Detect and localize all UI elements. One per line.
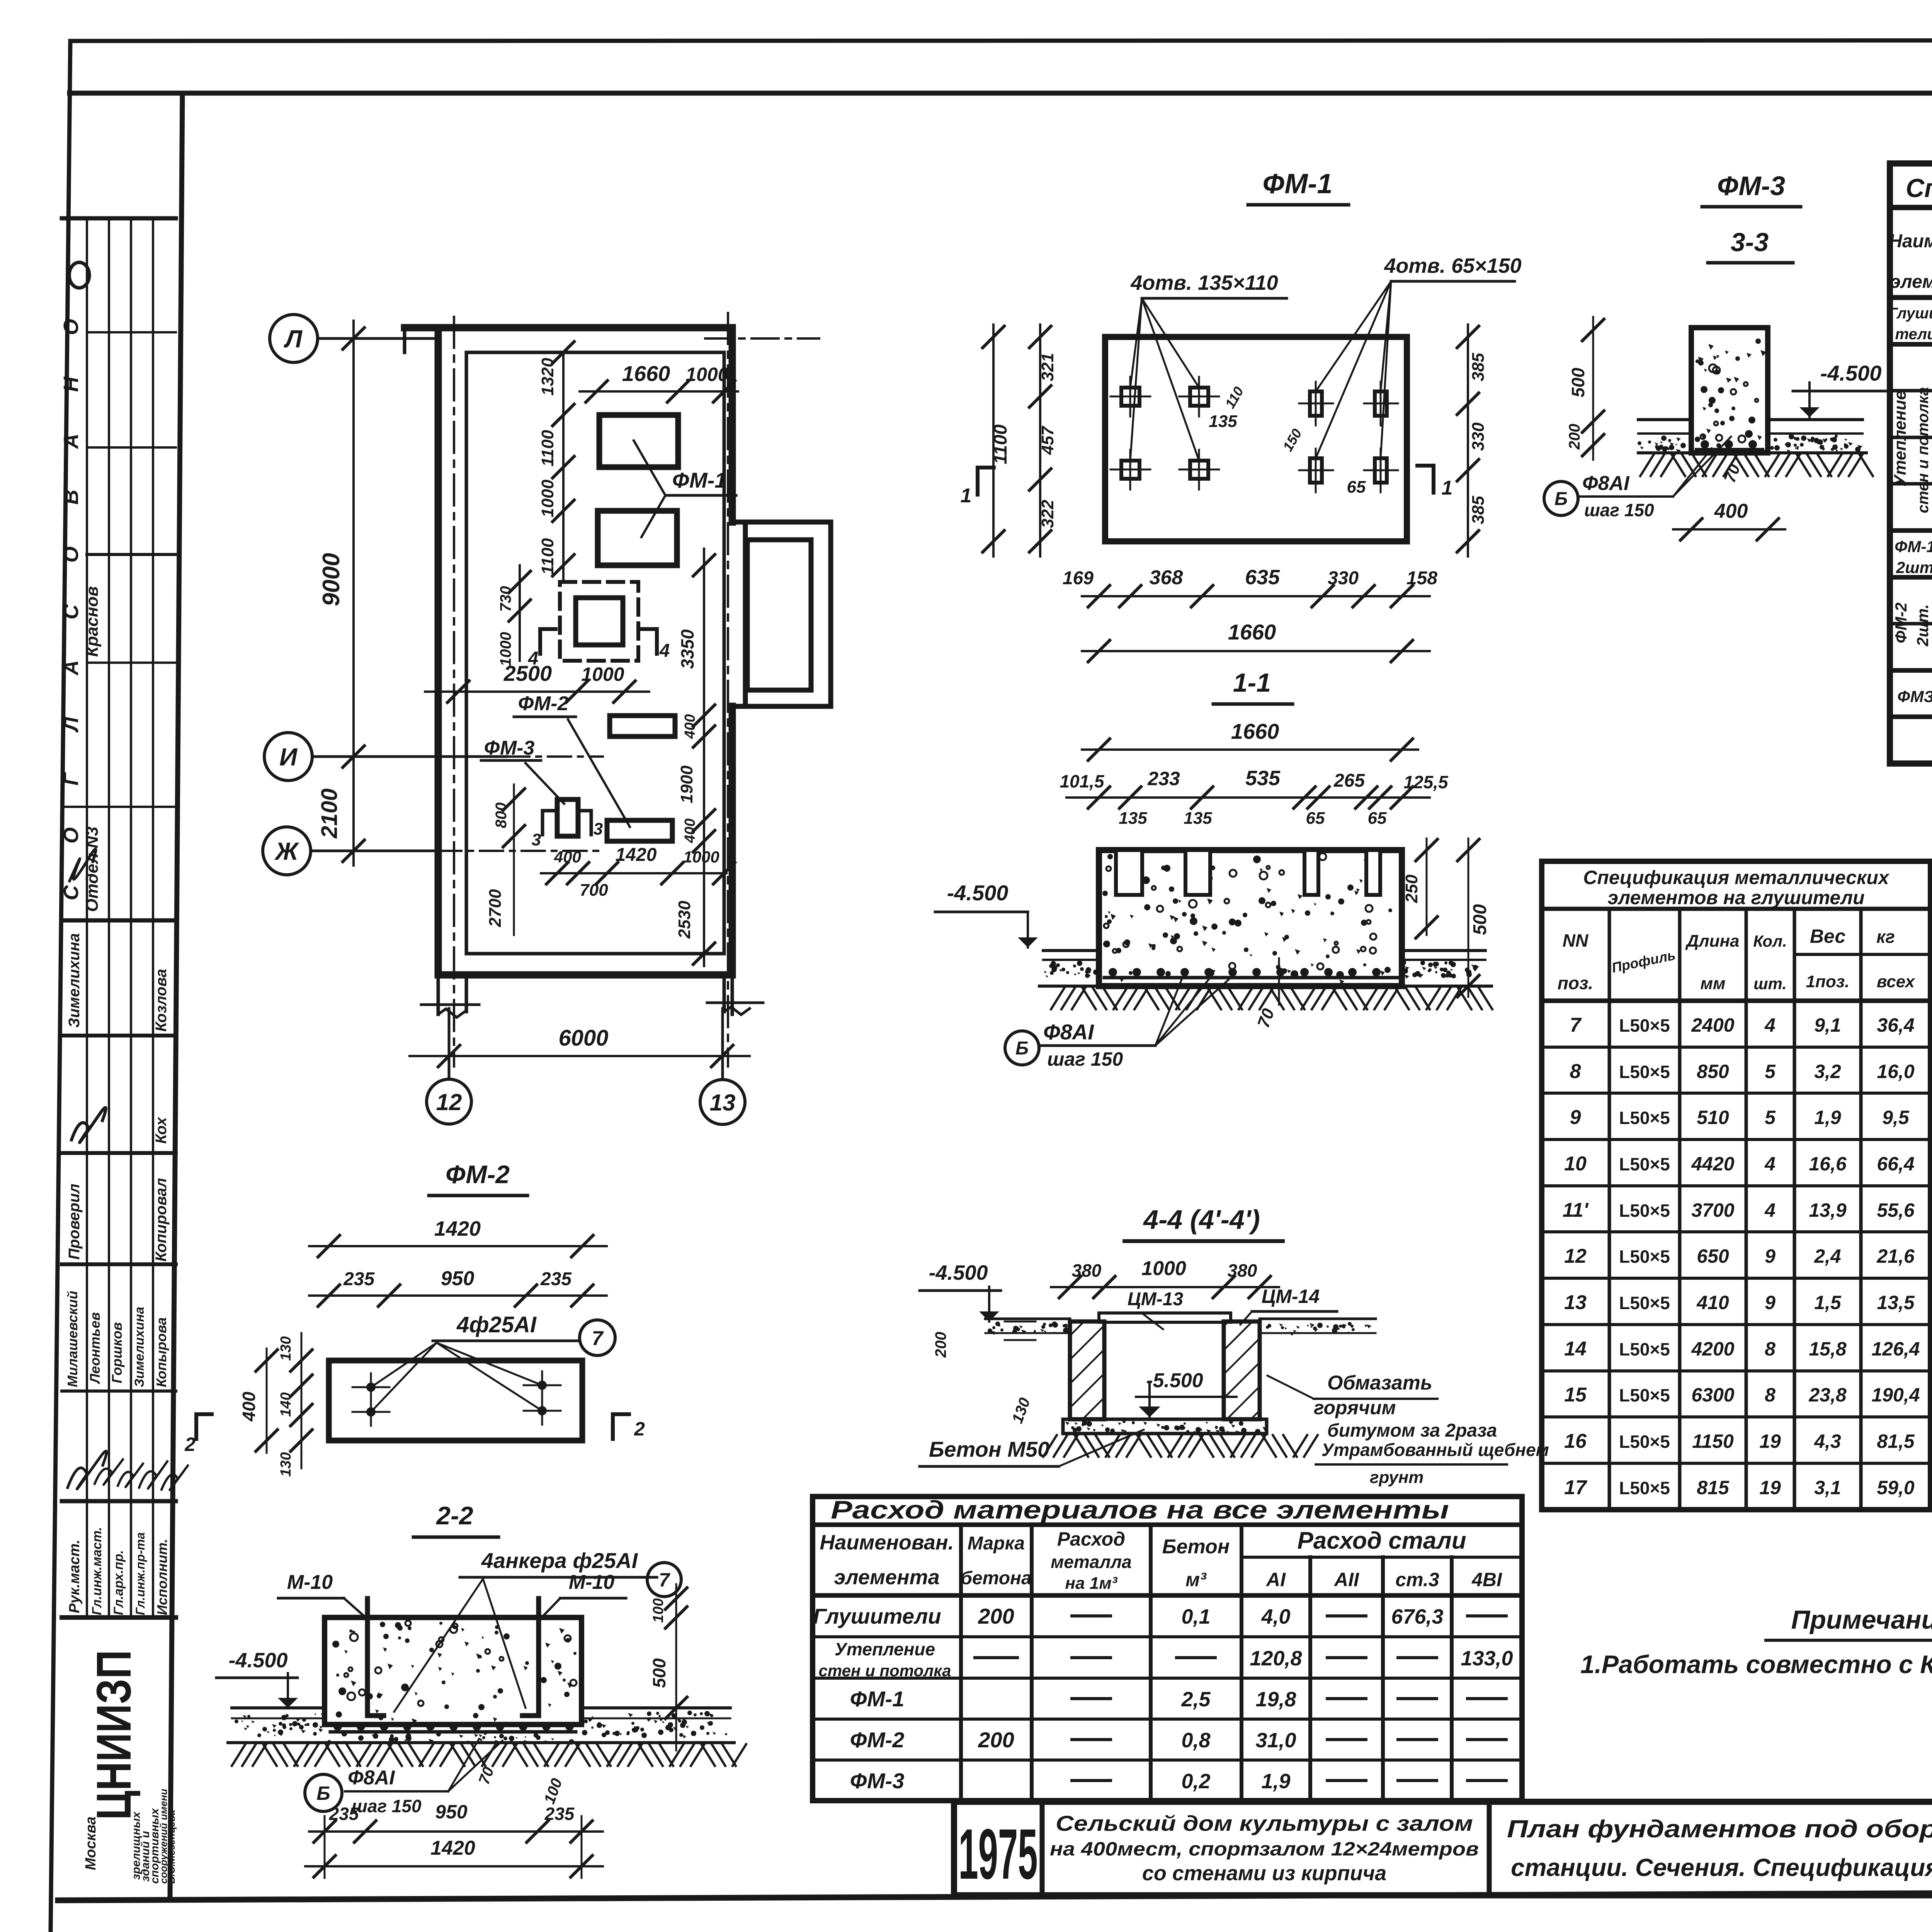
svg-text:8: 8 bbox=[1765, 1338, 1776, 1360]
svg-text:130: 130 bbox=[278, 1452, 294, 1476]
svg-text:Б: Б bbox=[1015, 1038, 1029, 1059]
dim chain 1320 1100 1000 1100 bbox=[562, 352, 565, 580]
svg-text:9000: 9000 bbox=[318, 553, 345, 606]
grid axis 12 bbox=[427, 1079, 471, 1124]
svg-text:510: 510 bbox=[1697, 1107, 1729, 1128]
svg-text:31,0: 31,0 bbox=[1255, 1729, 1296, 1752]
svg-text:3-3: 3-3 bbox=[1731, 228, 1769, 257]
svg-text:Краснов: Краснов bbox=[83, 586, 102, 657]
svg-text:стен и потолка: стен и потолка bbox=[819, 1662, 951, 1680]
dim 9000 / 2100 bbox=[352, 321, 355, 866]
svg-text:Леонтьев: Леонтьев bbox=[87, 1312, 103, 1384]
svg-text:368: 368 bbox=[1150, 566, 1183, 589]
svg-text:План фундаментов под оборудова: План фундаментов под оборудование насосн… bbox=[1507, 1815, 1932, 1843]
foundation plan bbox=[263, 313, 831, 1124]
svg-text:385: 385 bbox=[1469, 496, 1488, 524]
svg-text:ФМ-1: ФМ-1 bbox=[672, 468, 727, 492]
svg-text:125,5: 125,5 bbox=[1403, 772, 1449, 792]
svg-text:140: 140 bbox=[278, 1392, 294, 1417]
svg-text:233: 233 bbox=[1147, 768, 1180, 789]
svg-text:Глуши-: Глуши- bbox=[1888, 305, 1932, 322]
section marks 4 bbox=[538, 629, 542, 654]
punch hole bbox=[69, 262, 89, 288]
svg-text:стен и потолка: стен и потолка bbox=[1915, 387, 1932, 514]
svg-text:15: 15 bbox=[1564, 1384, 1587, 1406]
svg-text:ФМ-2: ФМ-2 bbox=[850, 1728, 905, 1752]
svg-text:3: 3 bbox=[594, 820, 603, 838]
svg-text:поз.: поз. bbox=[1558, 973, 1593, 993]
svg-text:Ф8АI: Ф8АI bbox=[348, 1767, 395, 1789]
svg-text:200: 200 bbox=[932, 1332, 949, 1358]
svg-text:1150: 1150 bbox=[1692, 1430, 1734, 1452]
svg-text:элементов на глушители: элементов на глушители bbox=[1608, 887, 1865, 908]
svg-text:9: 9 bbox=[1570, 1106, 1581, 1129]
svg-text:Утепление: Утепление bbox=[835, 1639, 935, 1659]
svg-text:ФМ-3: ФМ-3 bbox=[1717, 171, 1785, 201]
svg-text:бетона: бетона bbox=[961, 1568, 1031, 1588]
svg-text:ФМ-1: ФМ-1 bbox=[1895, 537, 1932, 556]
svg-text:Марка: Марка bbox=[968, 1533, 1025, 1554]
grid axis Ж bbox=[263, 827, 311, 875]
svg-text:11': 11' bbox=[1563, 1199, 1589, 1221]
left stamp column bbox=[60, 93, 188, 1897]
svg-text:410: 410 bbox=[1696, 1292, 1729, 1313]
svg-text:7: 7 bbox=[1570, 1014, 1582, 1036]
svg-text:2500: 2500 bbox=[503, 661, 552, 685]
svg-text:6000: 6000 bbox=[558, 1026, 608, 1051]
svg-text:200: 200 bbox=[978, 1604, 1014, 1628]
svg-text:шаг 150: шаг 150 bbox=[352, 1796, 422, 1816]
svg-text:Спецификация арматуры на 1элем: Спецификация арматуры на 1элемент bbox=[1906, 173, 1932, 203]
svg-text:Наименован.: Наименован. bbox=[820, 1531, 954, 1554]
svg-text:0,1: 0,1 bbox=[1181, 1605, 1210, 1628]
svg-text:7: 7 bbox=[592, 1327, 604, 1350]
svg-text:2: 2 bbox=[184, 1434, 196, 1455]
svg-text:133,0: 133,0 bbox=[1461, 1647, 1513, 1670]
svg-text:5: 5 bbox=[1765, 1107, 1776, 1128]
svg-text:9,5: 9,5 bbox=[1882, 1107, 1910, 1128]
svg-text:ЦМ-14: ЦМ-14 bbox=[1262, 1286, 1320, 1307]
svg-text:1420: 1420 bbox=[616, 845, 657, 865]
svg-text:мм: мм bbox=[1700, 974, 1725, 993]
svg-text:0,2: 0,2 bbox=[1181, 1770, 1210, 1793]
svg-text:грунт: грунт bbox=[1370, 1468, 1423, 1487]
svg-text:ФМ-2: ФМ-2 bbox=[1892, 602, 1910, 643]
pit (section 4-4) bbox=[560, 582, 638, 661]
svg-text:Расход: Расход bbox=[1057, 1528, 1125, 1550]
svg-text:ФМЗ: ФМЗ bbox=[1897, 687, 1932, 706]
svg-text:66,4: 66,4 bbox=[1877, 1153, 1914, 1175]
svg-text:380: 380 bbox=[1228, 1260, 1257, 1281]
svg-text:4анкера ф25АI: 4анкера ф25АI bbox=[481, 1548, 638, 1573]
ФМ-1 foundations on plan bbox=[599, 415, 678, 467]
svg-text:L50×5: L50×5 bbox=[1619, 1478, 1670, 1498]
svg-text:650: 650 bbox=[1697, 1245, 1729, 1267]
svg-text:500: 500 bbox=[1568, 367, 1588, 397]
svg-text:12: 12 bbox=[1564, 1245, 1587, 1267]
svg-text:4200: 4200 bbox=[1691, 1338, 1734, 1360]
svg-text:3,2: 3,2 bbox=[1814, 1061, 1841, 1082]
svg-text:Гл.инж.пр-та: Гл.инж.пр-та bbox=[133, 1532, 147, 1615]
svg-text:700: 700 bbox=[580, 881, 608, 900]
dim 400 700 1420 1000 bbox=[541, 872, 726, 874]
grid axis 13 bbox=[700, 1080, 745, 1124]
svg-text:4: 4 bbox=[1764, 1014, 1776, 1036]
svg-text:Обмазать: Обмазать bbox=[1327, 1372, 1432, 1394]
svg-text:200: 200 bbox=[1566, 424, 1583, 450]
svg-text:ФМ-3: ФМ-3 bbox=[484, 737, 535, 759]
table: Расход материалов на все элементы bbox=[813, 1495, 1522, 1801]
svg-text:горячим: горячим bbox=[1314, 1397, 1396, 1418]
svg-text:1: 1 bbox=[961, 485, 972, 507]
svg-text:Утрамбованный щебнем: Утрамбованный щебнем bbox=[1321, 1440, 1549, 1460]
svg-text:9,1: 9,1 bbox=[1814, 1014, 1841, 1036]
niche bbox=[745, 522, 831, 706]
svg-text:380: 380 bbox=[1072, 1260, 1102, 1281]
svg-text:2400: 2400 bbox=[1691, 1014, 1734, 1036]
svg-text:Милашевский: Милашевский bbox=[65, 1291, 80, 1387]
svg-text:8: 8 bbox=[1570, 1060, 1581, 1083]
svg-text:1-1: 1-1 bbox=[1233, 668, 1271, 697]
note Примечание bbox=[1580, 1605, 1932, 1679]
grid axis Л bbox=[270, 315, 318, 362]
svg-text:L50×5: L50×5 bbox=[1619, 1062, 1670, 1082]
dim 2500 1000 bbox=[425, 690, 649, 693]
grid axis И bbox=[264, 733, 312, 781]
svg-text:Москва: Москва bbox=[83, 1816, 99, 1870]
svg-text:-5.500: -5.500 bbox=[1146, 1369, 1203, 1392]
svg-text:400: 400 bbox=[682, 818, 698, 843]
svg-text:1: 1 bbox=[1442, 477, 1453, 499]
svg-text:676,3: 676,3 bbox=[1391, 1605, 1443, 1628]
svg-text:Копырова: Копырова bbox=[153, 1317, 169, 1387]
svg-text:1420: 1420 bbox=[430, 1837, 475, 1859]
svg-text:457: 457 bbox=[1038, 425, 1057, 455]
svg-text:126,4: 126,4 bbox=[1871, 1338, 1920, 1360]
svg-text:2700: 2700 bbox=[486, 889, 505, 927]
svg-text:L50×5: L50×5 bbox=[1619, 1339, 1670, 1359]
svg-text:Спецификация металлических: Спецификация металлических bbox=[1583, 867, 1890, 888]
svg-text:322: 322 bbox=[1038, 500, 1057, 528]
svg-text:1,9: 1,9 bbox=[1261, 1770, 1290, 1793]
svg-text:Б: Б bbox=[316, 1782, 330, 1804]
svg-text:L50×5: L50×5 bbox=[1619, 1015, 1670, 1036]
svg-text:21,6: 21,6 bbox=[1876, 1245, 1915, 1267]
svg-text:12: 12 bbox=[436, 1089, 462, 1115]
svg-text:Л: Л bbox=[284, 325, 303, 353]
svg-text:СОГЛАСОВАНО: СОГЛАСОВАНО bbox=[60, 277, 83, 900]
svg-text:19,8: 19,8 bbox=[1255, 1688, 1296, 1711]
svg-text:1660: 1660 bbox=[622, 361, 670, 386]
svg-text:500: 500 bbox=[1470, 904, 1490, 935]
svg-text:Гл.арх.пр.: Гл.арх.пр. bbox=[111, 1550, 126, 1615]
svg-text:L50×5: L50×5 bbox=[1619, 1432, 1670, 1452]
svg-text:2,4: 2,4 bbox=[1814, 1245, 1841, 1267]
svg-text:4,3: 4,3 bbox=[1814, 1430, 1841, 1452]
svg-text:4отв. 135×110: 4отв. 135×110 bbox=[1130, 271, 1278, 294]
svg-text:Расход материалов на все элеме: Расход материалов на все элементы bbox=[831, 1495, 1449, 1524]
svg-text:Глушители: Глушители bbox=[813, 1604, 941, 1628]
dim chain 3350 400 1900 400 2530 bbox=[703, 549, 705, 966]
title block bbox=[954, 1802, 1932, 1926]
svg-text:3,1: 3,1 bbox=[1814, 1477, 1841, 1498]
svg-text:400: 400 bbox=[239, 1391, 259, 1422]
svg-text:2530: 2530 bbox=[675, 901, 694, 939]
svg-text:ст.3: ст.3 bbox=[1395, 1569, 1439, 1590]
svg-text:16,0: 16,0 bbox=[1877, 1061, 1915, 1082]
svg-text:1100: 1100 bbox=[538, 538, 557, 575]
svg-text:9: 9 bbox=[1765, 1292, 1776, 1313]
svg-text:850: 850 bbox=[1697, 1061, 1729, 1082]
svg-text:L50×5: L50×5 bbox=[1619, 1293, 1670, 1313]
svg-text:101,5: 101,5 bbox=[1060, 771, 1105, 791]
svg-text:59,0: 59,0 bbox=[1877, 1477, 1915, 1498]
svg-text:4-4 (4'-4'): 4-4 (4'-4') bbox=[1143, 1204, 1260, 1235]
svg-text:169: 169 bbox=[1063, 568, 1094, 588]
svg-text:10: 10 bbox=[1564, 1153, 1587, 1175]
svg-text:36,4: 36,4 bbox=[1877, 1014, 1914, 1036]
svg-text:Б.С.Мезенцева: Б.С.Мезенцева bbox=[165, 1810, 177, 1884]
svg-text:Сельский дом культуры с залом: Сельский дом культуры с залом bbox=[1056, 1811, 1473, 1835]
svg-text:265: 265 bbox=[1333, 770, 1365, 791]
detail ФМ-1 plan of plate bbox=[961, 168, 1522, 662]
svg-text:5: 5 bbox=[1765, 1061, 1776, 1082]
svg-text:1000: 1000 bbox=[1141, 1257, 1186, 1280]
svg-text:250: 250 bbox=[1402, 874, 1421, 903]
svg-text:Копировал: Копировал bbox=[153, 1178, 170, 1262]
svg-text:Бетон М50: Бетон М50 bbox=[929, 1437, 1049, 1461]
svg-text:1660: 1660 bbox=[1228, 620, 1276, 644]
svg-text:19: 19 bbox=[1759, 1477, 1781, 1498]
svg-text:4420: 4420 bbox=[1691, 1153, 1734, 1175]
svg-text:330: 330 bbox=[1469, 422, 1488, 451]
svg-text:135: 135 bbox=[1209, 412, 1237, 431]
svg-text:17: 17 bbox=[1564, 1476, 1587, 1499]
svg-text:ФМ-2: ФМ-2 bbox=[446, 1160, 510, 1189]
svg-text:L50×5: L50×5 bbox=[1619, 1201, 1670, 1221]
svg-text:130: 130 bbox=[278, 1336, 294, 1361]
svg-text:шаг 150: шаг 150 bbox=[1047, 1048, 1123, 1070]
svg-text:1,5: 1,5 bbox=[1814, 1292, 1842, 1313]
svg-text:2100: 2100 bbox=[317, 788, 342, 838]
svg-text:1975: 1975 bbox=[959, 1815, 1038, 1894]
svg-text:55,6: 55,6 bbox=[1877, 1199, 1915, 1221]
svg-text:16: 16 bbox=[1564, 1430, 1587, 1452]
svg-text:400: 400 bbox=[554, 848, 581, 866]
section 1-1 bbox=[935, 668, 1492, 1070]
svg-text:ФМ-2: ФМ-2 bbox=[518, 692, 569, 715]
svg-text:321: 321 bbox=[1038, 353, 1057, 381]
ФМ-3 foundation on plan bbox=[557, 799, 578, 836]
svg-text:Отдел N3: Отдел N3 bbox=[83, 827, 102, 912]
svg-text:станции. Сечения. Спецификац: станции. Сечения. Спецификация. bbox=[1511, 1854, 1932, 1881]
svg-text:1000: 1000 bbox=[538, 480, 557, 517]
svg-text:1000: 1000 bbox=[581, 663, 624, 685]
svg-text:3: 3 bbox=[532, 830, 541, 849]
svg-text:3700: 3700 bbox=[1691, 1199, 1734, 1221]
svg-text:со стенами из кирпича: со стенами из кирпича bbox=[1142, 1862, 1386, 1885]
svg-text:4ВI: 4ВI bbox=[1471, 1569, 1502, 1590]
svg-text:Зимелихина: Зимелихина bbox=[66, 933, 83, 1028]
svg-text:кг: кг bbox=[1876, 927, 1895, 947]
svg-text:1660: 1660 bbox=[1231, 719, 1279, 743]
svg-text:Длина: Длина bbox=[1685, 932, 1739, 951]
svg-text:L50×5: L50×5 bbox=[1619, 1154, 1670, 1174]
svg-text:Б: Б bbox=[1554, 489, 1568, 509]
svg-text:2,5: 2,5 bbox=[1181, 1688, 1211, 1711]
svg-text:4ф25АI: 4ф25АI bbox=[456, 1312, 537, 1337]
svg-text:15,8: 15,8 bbox=[1809, 1338, 1847, 1360]
svg-text:16,6: 16,6 bbox=[1809, 1153, 1847, 1175]
svg-text:8: 8 bbox=[1765, 1384, 1776, 1406]
svg-text:АI: АI bbox=[1265, 1569, 1286, 1590]
svg-text:на 1м³: на 1м³ bbox=[1065, 1574, 1118, 1593]
detail ФМ-2 bbox=[184, 1160, 645, 1477]
svg-text:И: И bbox=[279, 743, 298, 771]
svg-text:1900: 1900 bbox=[677, 765, 696, 803]
svg-text:500: 500 bbox=[649, 1658, 669, 1688]
svg-text:385: 385 bbox=[1469, 353, 1488, 381]
svg-text:-4.500: -4.500 bbox=[1820, 361, 1882, 385]
svg-text:1100: 1100 bbox=[990, 424, 1011, 464]
svg-text:330: 330 bbox=[1328, 568, 1359, 588]
svg-text:635: 635 bbox=[1245, 566, 1280, 589]
svg-text:100: 100 bbox=[650, 1598, 667, 1622]
svg-text:-4.500: -4.500 bbox=[228, 1649, 287, 1672]
svg-text:13: 13 bbox=[1564, 1291, 1587, 1314]
svg-text:Бетон: Бетон bbox=[1162, 1536, 1230, 1558]
table: Спецификация арматуры на 1 элемент / Выборка арматуры bbox=[1888, 163, 1932, 764]
svg-text:Утепление: Утепление bbox=[1891, 391, 1910, 487]
svg-text:Кох: Кох bbox=[153, 1116, 170, 1144]
svg-text:Расход стали: Расход стали bbox=[1297, 1527, 1466, 1554]
svg-text:ЦМ-13: ЦМ-13 bbox=[1128, 1289, 1184, 1310]
svg-text:NN: NN bbox=[1563, 930, 1588, 951]
svg-text:ФМ-1: ФМ-1 bbox=[1262, 168, 1332, 199]
svg-text:2: 2 bbox=[634, 1418, 645, 1440]
svg-text:4отв. 65×150: 4отв. 65×150 bbox=[1384, 254, 1521, 277]
svg-text:элемента: элемента bbox=[834, 1566, 939, 1589]
svg-text:всех: всех bbox=[1877, 972, 1915, 991]
svg-text:Гл.инж.маст.: Гл.инж.маст. bbox=[90, 1527, 104, 1615]
svg-text:4: 4 bbox=[659, 641, 670, 661]
svg-text:730: 730 bbox=[497, 586, 514, 612]
svg-text:2шт.: 2шт. bbox=[1913, 604, 1932, 646]
svg-text:элем.: элем. bbox=[1890, 272, 1932, 292]
svg-text:14: 14 bbox=[1564, 1338, 1587, 1360]
svg-text:65: 65 bbox=[1306, 809, 1325, 828]
svg-text:1320: 1320 bbox=[538, 358, 557, 396]
svg-text:тели: тели bbox=[1895, 326, 1932, 343]
svg-text:2-2: 2-2 bbox=[435, 1501, 473, 1530]
svg-text:400: 400 bbox=[682, 714, 698, 739]
svg-text:200: 200 bbox=[978, 1728, 1014, 1752]
svg-text:4,0: 4,0 bbox=[1261, 1605, 1290, 1628]
svg-text:235: 235 bbox=[343, 1269, 375, 1289]
svg-text:м³: м³ bbox=[1185, 1569, 1207, 1590]
svg-text:13,9: 13,9 bbox=[1809, 1199, 1847, 1221]
svg-text:13,5: 13,5 bbox=[1877, 1292, 1915, 1313]
svg-text:4: 4 bbox=[1764, 1199, 1776, 1221]
svg-text:шаг 150: шаг 150 bbox=[1584, 500, 1654, 520]
svg-text:ФМ-1: ФМ-1 bbox=[850, 1687, 905, 1711]
svg-text:235: 235 bbox=[329, 1804, 359, 1824]
svg-text:1000: 1000 bbox=[683, 848, 719, 866]
svg-text:23,8: 23,8 bbox=[1808, 1384, 1847, 1406]
svg-text:ЦНИИЗП: ЦНИИЗП bbox=[87, 1650, 141, 1820]
svg-text:Исполнит.: Исполнит. bbox=[154, 1539, 170, 1615]
ФМ-2 foundations on plan bbox=[610, 716, 675, 736]
svg-text:Рук.маст.: Рук.маст. bbox=[66, 1539, 83, 1613]
svg-text:Ф8АI: Ф8АI bbox=[1043, 1020, 1094, 1044]
svg-text:2шт: 2шт bbox=[1896, 558, 1932, 577]
svg-text:1,9: 1,9 bbox=[1814, 1107, 1841, 1128]
svg-text:81,5: 81,5 bbox=[1877, 1430, 1915, 1452]
svg-text:АII: АII bbox=[1333, 1569, 1359, 1590]
table: Спецификация металлических элементов на глушители bbox=[1542, 861, 1930, 1510]
svg-text:235: 235 bbox=[540, 1269, 572, 1289]
svg-text:9: 9 bbox=[1765, 1245, 1776, 1267]
svg-text:шт.: шт. bbox=[1753, 975, 1787, 993]
svg-text:-4.500: -4.500 bbox=[929, 1261, 988, 1284]
svg-text:Козлова: Козлова bbox=[153, 969, 170, 1032]
svg-text:Проверил: Проверил bbox=[66, 1184, 83, 1260]
svg-text:535: 535 bbox=[1245, 767, 1281, 790]
svg-text:М-10: М-10 bbox=[287, 1571, 333, 1594]
svg-text:950: 950 bbox=[435, 1801, 468, 1823]
svg-text:65: 65 bbox=[1368, 809, 1387, 828]
svg-text:1100: 1100 bbox=[538, 430, 557, 466]
svg-text:М-10: М-10 bbox=[569, 1571, 615, 1594]
svg-text:19: 19 bbox=[1759, 1430, 1781, 1452]
svg-text:Наим.: Наим. bbox=[1889, 231, 1932, 252]
svg-text:950: 950 bbox=[441, 1267, 474, 1290]
section 2-2 bbox=[216, 1501, 746, 1878]
svg-text:4: 4 bbox=[1764, 1153, 1776, 1175]
svg-text:235: 235 bbox=[544, 1804, 575, 1824]
svg-text:1.Работать совместно с КС-07.: 1.Работать совместно с КС-07. bbox=[1580, 1650, 1932, 1679]
svg-text:120,8: 120,8 bbox=[1250, 1647, 1302, 1670]
svg-text:6300: 6300 bbox=[1691, 1384, 1734, 1406]
section 4-4 bbox=[920, 1204, 1549, 1487]
svg-text:на 400мест, спортзалом 12×24ме: на 400мест, спортзалом 12×24метров bbox=[1050, 1838, 1479, 1860]
svg-text:-4.500: -4.500 bbox=[947, 881, 1009, 905]
svg-text:Ж: Ж bbox=[274, 837, 299, 865]
svg-text:135: 135 bbox=[1119, 809, 1147, 828]
svg-text:Ф8АI: Ф8АI bbox=[1582, 472, 1630, 495]
svg-text:0,8: 0,8 bbox=[1181, 1729, 1210, 1752]
svg-text:Кол.: Кол. bbox=[1753, 932, 1787, 950]
svg-text:65: 65 bbox=[1347, 478, 1366, 497]
svg-text:Вес: Вес bbox=[1810, 925, 1846, 947]
svg-text:металла: металла bbox=[1051, 1552, 1131, 1572]
svg-text:13: 13 bbox=[710, 1090, 736, 1116]
svg-text:битумом за 2раза: битумом за 2раза bbox=[1327, 1420, 1497, 1441]
svg-text:135: 135 bbox=[1184, 809, 1212, 828]
svg-text:1000: 1000 bbox=[685, 364, 728, 385]
dim 1660 1000 bbox=[580, 390, 738, 393]
svg-text:3350: 3350 bbox=[677, 629, 697, 669]
svg-text:7: 7 bbox=[659, 1569, 670, 1591]
svg-text:400: 400 bbox=[1714, 500, 1748, 522]
svg-text:190,4: 190,4 bbox=[1871, 1384, 1920, 1406]
svg-text:L50×5: L50×5 bbox=[1619, 1247, 1670, 1267]
svg-text:158: 158 bbox=[1406, 568, 1437, 588]
detail ФМ-3 section 3-3 bbox=[1544, 171, 1909, 540]
svg-text:Горшков: Горшков bbox=[109, 1322, 125, 1383]
svg-text:815: 815 bbox=[1697, 1477, 1730, 1498]
svg-text:L50×5: L50×5 bbox=[1619, 1385, 1670, 1405]
